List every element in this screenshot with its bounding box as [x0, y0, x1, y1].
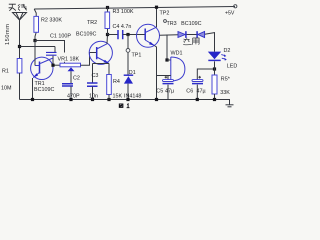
wire TR2 collector up: [106, 35, 109, 44]
resistor R5: [212, 75, 217, 94]
resistor R3: [106, 6, 109, 9]
node R2/base wire junction: [33, 39, 36, 42]
svg-text:10M: 10M: [1, 86, 12, 92]
sounder WD1: [171, 57, 185, 81]
svg-text:VR1 18K: VR1 18K: [58, 56, 80, 62]
svg-text:WD1: WD1: [171, 51, 183, 57]
resistor R1: [17, 59, 22, 74]
svg-text:C2: C2: [73, 76, 80, 82]
wire R1 to rail: [19, 73, 21, 100]
bottom rail: [20, 99, 215, 101]
svg-text:R2 330K: R2 330K: [41, 18, 62, 24]
antenna: [13, 13, 27, 21]
ground: [215, 100, 230, 105]
svg-text:R3 100K: R3 100K: [113, 9, 134, 15]
svg-text:470P: 470P: [67, 93, 80, 99]
node dots bottom rail: [31, 98, 34, 101]
LED D2: [208, 52, 221, 60]
svg-text:TR2: TR2: [87, 20, 97, 26]
wire VR1 right to TR2 base: [81, 53, 97, 66]
svg-text:+5V: +5V: [225, 11, 235, 17]
svg-text:47µ: 47µ: [197, 89, 206, 95]
capacitor C3: [93, 63, 110, 65]
svg-text:R5*: R5*: [221, 77, 231, 83]
wire base node horizontal: [20, 46, 56, 48]
wire WD1 upper column: [166, 35, 168, 61]
选用 label: [183, 38, 199, 45]
svg-text:47µ: 47µ: [165, 89, 174, 95]
diode D1: [124, 74, 134, 76]
+5V terminal: [234, 5, 237, 8]
caption 图 1: [119, 104, 129, 108]
test point TP2: [164, 20, 167, 23]
resistor R4: [108, 64, 110, 75]
svg-text:C5: C5: [156, 89, 163, 95]
transistor TR2: [89, 41, 112, 64]
test point TP1: [126, 49, 130, 53]
svg-text:10n: 10n: [89, 93, 98, 99]
svg-text:R1: R1: [2, 69, 9, 75]
wire to VR1 tap: [35, 41, 65, 64]
svg-text:D1: D1: [129, 70, 136, 76]
capacitor C1: [54, 47, 56, 53]
svg-text:150mm: 150mm: [5, 24, 11, 45]
svg-text:C6: C6: [186, 89, 193, 95]
diode pair optional 选用: [178, 32, 185, 38]
wire D1 column: [127, 35, 129, 75]
transistor TR3: [137, 24, 160, 47]
wire TR3 emitter down: [155, 46, 157, 100]
svg-text:TP1: TP1: [132, 53, 142, 59]
antenna label 天线: [9, 4, 27, 11]
top rail: [34, 7, 235, 10]
svg-text:BC109C: BC109C: [34, 87, 54, 93]
svg-text:C1 100P: C1 100P: [50, 33, 71, 39]
svg-text:TR3 BC109C: TR3 BC109C: [167, 21, 202, 27]
node antenna/base junction: [18, 45, 21, 48]
wire WD1 lower lead: [157, 75, 171, 77]
svg-text:C4 4.7n: C4 4.7n: [113, 24, 132, 30]
capacitor C2: [62, 84, 73, 86]
svg-text:33K: 33K: [220, 90, 230, 96]
svg-text:BC109C: BC109C: [76, 32, 96, 38]
wire TR1 collector to VR1: [53, 64, 60, 66]
node C4/TR3/D1 junction: [126, 33, 129, 36]
svg-text:15K: 15K: [113, 93, 123, 99]
potentiometer VR1: [60, 63, 81, 67]
svg-text:TP2: TP2: [160, 11, 170, 17]
wire antenna down: [19, 20, 21, 59]
svg-text:C3: C3: [92, 73, 99, 79]
capacitor C5: [167, 76, 169, 80]
capacitor C6: [197, 69, 214, 80]
svg-text:D2: D2: [224, 48, 231, 54]
svg-text:R4: R4: [113, 79, 120, 85]
resistor R2: [34, 9, 36, 66]
capacitor C4: [118, 30, 123, 39]
transistor TR1: [31, 57, 53, 79]
wire diode row: [160, 33, 215, 52]
svg-text:LED: LED: [227, 63, 238, 69]
